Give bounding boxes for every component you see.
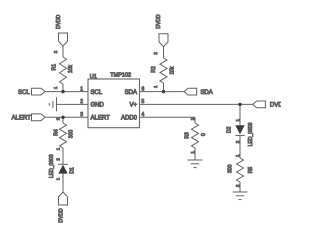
- svg-text:GND: GND: [91, 103, 105, 109]
- svg-text:300: 300: [69, 130, 75, 139]
- svg-text:D2: D2: [227, 126, 233, 133]
- svg-text:5: 5: [142, 99, 145, 105]
- svg-text:6: 6: [142, 86, 145, 92]
- svg-text:LED_0603: LED_0603: [49, 154, 55, 178]
- svg-text:R4: R4: [54, 129, 60, 136]
- svg-text:SCL: SCL: [18, 90, 30, 96]
- svg-text:0: 0: [201, 133, 207, 136]
- svg-text:DVDD: DVDD: [59, 208, 65, 223]
- svg-text:DVDD: DVDD: [270, 103, 281, 109]
- svg-text:4: 4: [142, 112, 145, 118]
- svg-text:SDA: SDA: [200, 90, 212, 96]
- svg-text:U1: U1: [90, 74, 97, 80]
- svg-text:SDA: SDA: [125, 90, 137, 96]
- svg-text:300: 300: [228, 164, 234, 173]
- svg-text:1: 1: [80, 86, 83, 92]
- svg-text:R5: R5: [248, 167, 254, 174]
- svg-text:ALERT: ALERT: [12, 116, 32, 122]
- svg-text:DVDD: DVDD: [156, 14, 162, 29]
- svg-text:DVDD: DVDD: [56, 14, 62, 29]
- svg-text:R1: R1: [52, 64, 58, 71]
- svg-text:2: 2: [80, 99, 83, 105]
- svg-text:R3: R3: [184, 132, 190, 139]
- svg-text:R2: R2: [151, 66, 157, 73]
- svg-text:ALERT: ALERT: [91, 116, 111, 122]
- svg-text:10k: 10k: [68, 64, 74, 73]
- svg-text:D1: D1: [70, 167, 76, 174]
- svg-text:LED_0603: LED_0603: [248, 122, 254, 146]
- svg-text:TMP102: TMP102: [110, 73, 131, 79]
- svg-text:3: 3: [80, 112, 83, 118]
- svg-text:SCL: SCL: [91, 90, 103, 96]
- svg-text:ADD0: ADD0: [121, 116, 138, 122]
- svg-text:V+: V+: [129, 103, 137, 109]
- svg-text:10k: 10k: [170, 66, 176, 75]
